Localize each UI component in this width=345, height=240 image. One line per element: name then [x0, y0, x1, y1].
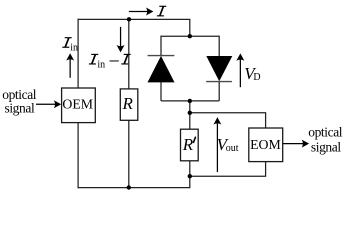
- current arrow I (top): [129, 8, 154, 16]
- svg-text:signal: signal: [311, 140, 341, 155]
- label I: [157, 6, 166, 16]
- svg-text:−: −: [109, 50, 120, 72]
- resistor R: [120, 89, 138, 120]
- svg-text:out: out: [226, 143, 239, 154]
- label Iin - I: [89, 54, 98, 64]
- EOM box: [249, 128, 283, 162]
- junction dot: top rail tap: [127, 17, 131, 21]
- wire: bridge left branch lower: [160, 82, 162, 101]
- svg-text:in: in: [97, 59, 105, 70]
- junction dot: bottom rail R tap: [127, 185, 131, 189]
- input arrow: optical signal into OEM: [36, 100, 61, 108]
- wire: R bottom to bottom rail: [128, 120, 130, 187]
- current arrow Iin (up): [66, 53, 74, 78]
- wire: OEM bottom down: [77, 123, 79, 189]
- svg-text:in: in: [70, 42, 78, 53]
- junction dot: ground node right: [188, 174, 192, 178]
- wire: bridge right branch upper: [218, 36, 220, 57]
- wire: bridge top rail: [161, 35, 219, 37]
- voltage arrow Vout (up): [213, 117, 221, 172]
- svg-text:OEM: OEM: [62, 97, 93, 112]
- wire: bridge left branch upper: [160, 36, 162, 56]
- wire: node to EOM top: [190, 113, 266, 128]
- voltage arrow VD (up): [236, 53, 244, 87]
- svg-text:EOM: EOM: [250, 137, 281, 152]
- svg-text:D: D: [253, 72, 260, 83]
- junction dot: bridge bottom: [188, 99, 192, 103]
- junction dot: bridge top: [188, 34, 192, 38]
- diode D2 (right, pointing down): [206, 56, 232, 82]
- svg-text:R: R: [122, 94, 134, 113]
- OEM box: [62, 88, 96, 123]
- wire: OEM top up to corner: [77, 19, 79, 88]
- wire: top horizontal rail: [78, 18, 191, 20]
- diode D1 (left, pointing up): [148, 56, 175, 83]
- wire: drop from top rail to bridge top: [189, 19, 191, 36]
- wire: bridge bottom to node Vout: [189, 101, 191, 129]
- current arrow Iin-I (down): [117, 27, 125, 53]
- resistor R': [181, 129, 199, 161]
- wire: bridge bottom rail: [161, 100, 219, 102]
- junction dot: Vout node: [188, 111, 192, 115]
- svg-text:signal: signal: [4, 101, 34, 116]
- output arrow: optical signal out of EOM: [283, 140, 309, 148]
- wire: bottom rail: [78, 176, 190, 187]
- svg-text:optical: optical: [308, 125, 343, 140]
- label Iin: [62, 38, 71, 48]
- wire: R' bottom to ground node: [189, 161, 191, 176]
- wire: bridge right branch lower: [218, 82, 220, 101]
- svg-text:R: R: [182, 135, 194, 154]
- wire: ground node to EOM bottom: [190, 162, 266, 177]
- wire: tap down to resistor R: [128, 19, 130, 89]
